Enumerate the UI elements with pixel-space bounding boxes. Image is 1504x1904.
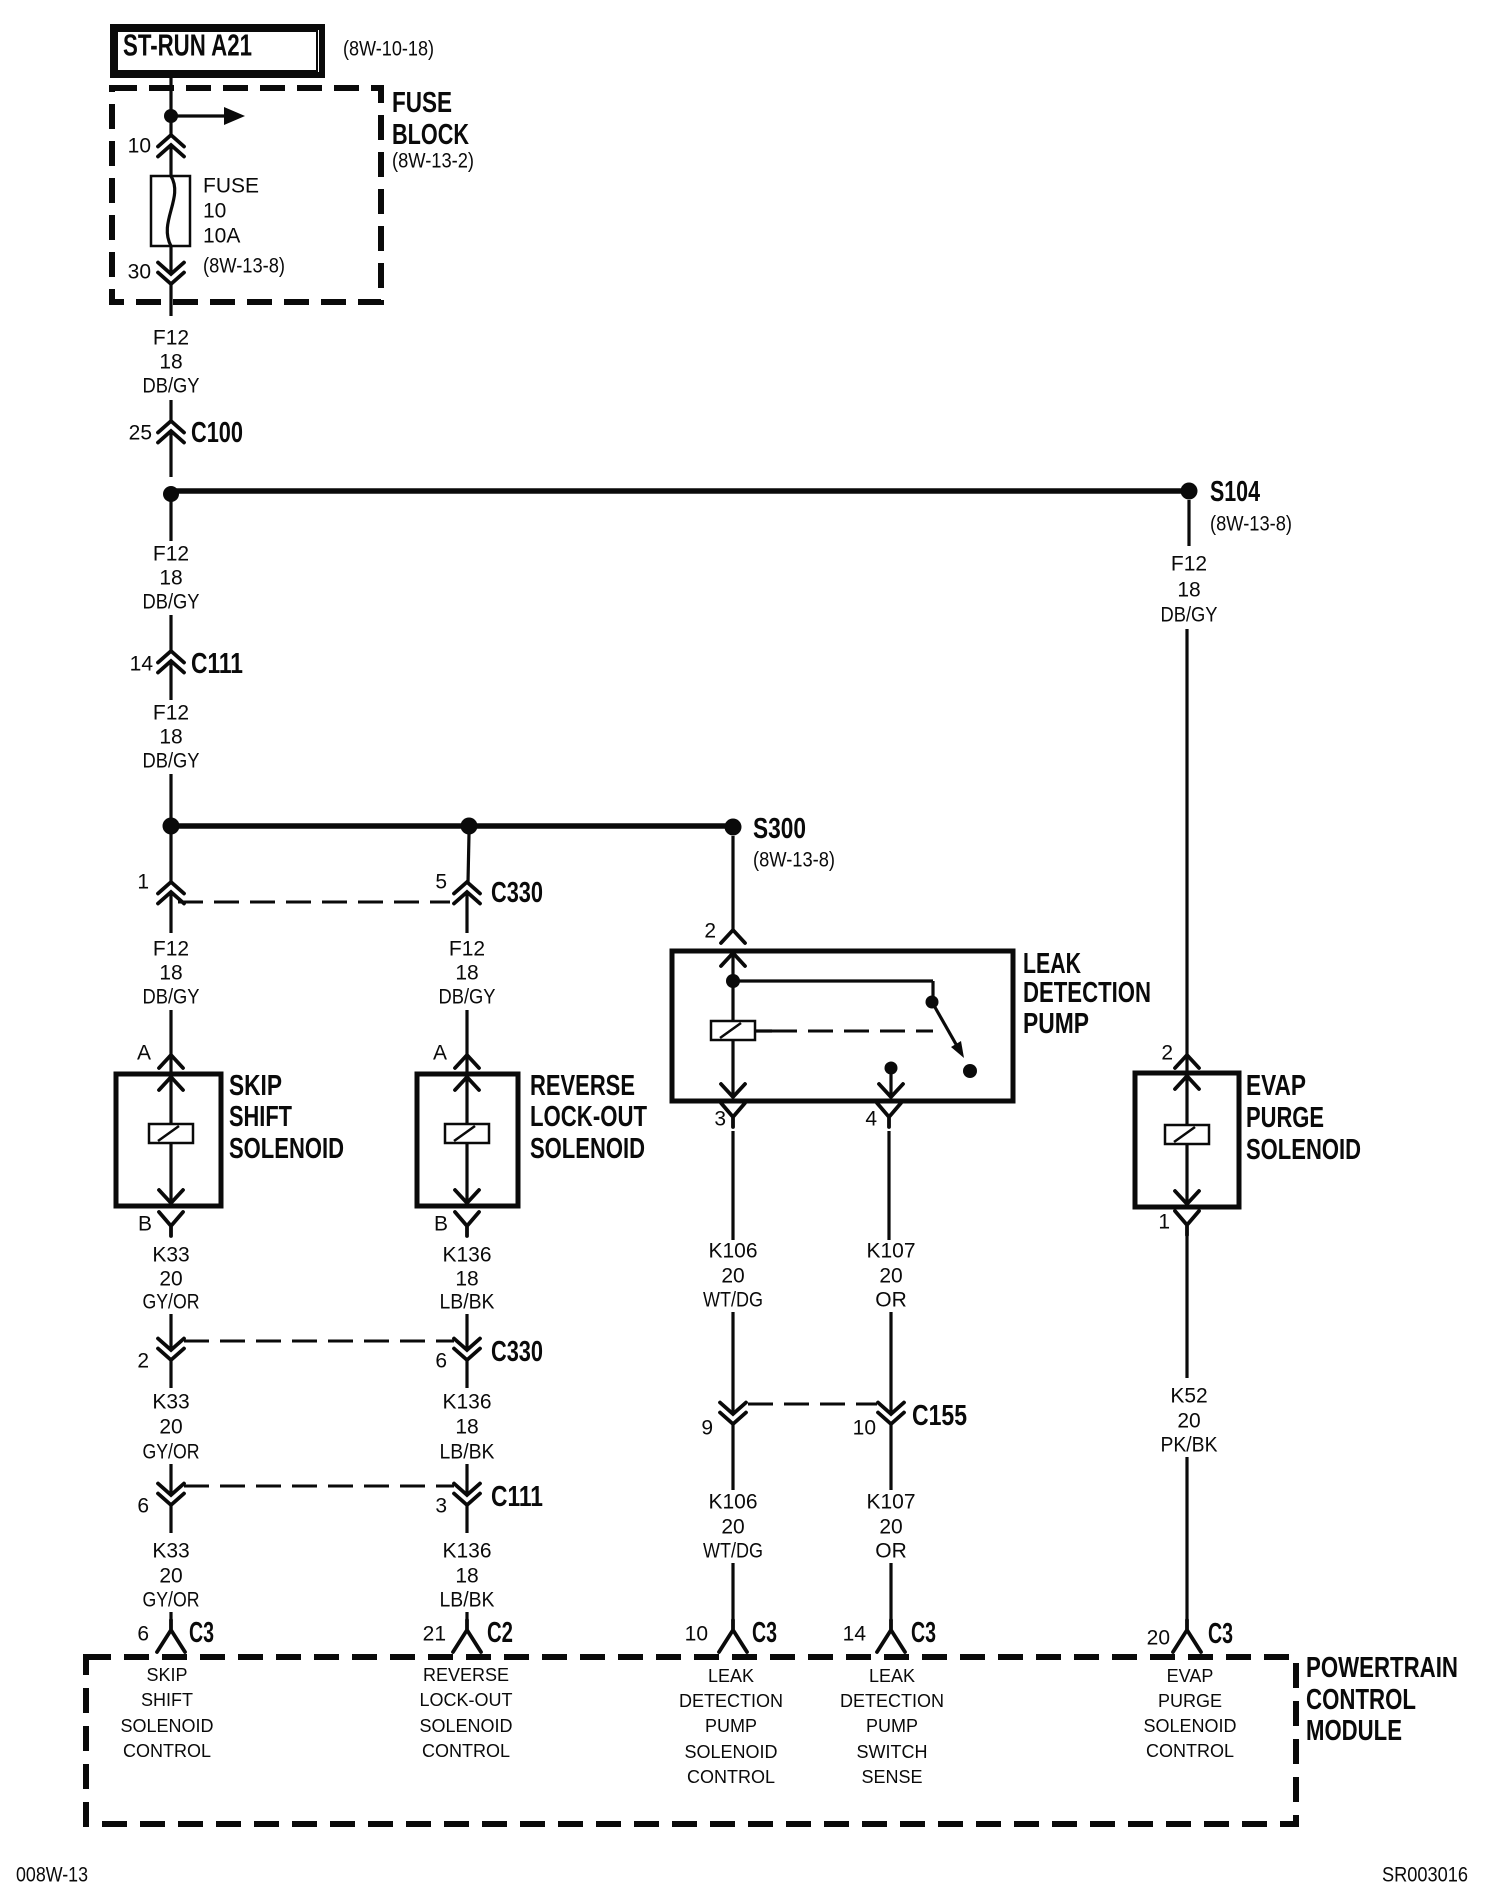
svg-text:F12: F12	[449, 938, 485, 961]
svg-text:5: 5	[435, 871, 447, 894]
svg-text:LEAK: LEAK	[869, 1666, 915, 1686]
svg-text:K107: K107	[866, 1491, 915, 1514]
svg-text:F12: F12	[153, 327, 189, 350]
LDP switch blade with arrow	[932, 1002, 964, 1058]
svg-text:PURGE: PURGE	[1158, 1691, 1222, 1711]
PCM label skip shift solenoid control	[120, 1665, 213, 1761]
LDP internal feed wire	[721, 951, 745, 1095]
svg-text:K52: K52	[1170, 1385, 1207, 1408]
wire label F12 18 DB/GY (right branch)	[439, 938, 496, 1009]
svg-text:CONTROL: CONTROL	[123, 1741, 211, 1761]
svg-text:C330: C330	[491, 877, 543, 909]
wire label F12 18 DB/GY (top)	[143, 327, 200, 398]
svg-text:C111: C111	[191, 648, 243, 680]
svg-text:20: 20	[159, 1416, 182, 1439]
svg-text:DETECTION: DETECTION	[679, 1691, 783, 1711]
wire label K106 20 WT/DG (2)	[703, 1491, 763, 1563]
svg-text:18: 18	[1177, 579, 1200, 602]
PCM label reverse lock-out solenoid control	[419, 1665, 512, 1761]
svg-text:20: 20	[159, 1268, 182, 1291]
wire label K33 20 GY/OR (2)	[143, 1391, 200, 1464]
svg-text:6: 6	[435, 1350, 447, 1373]
LDP pin 3 internal arrow	[721, 1084, 745, 1097]
svg-text:CONTROL: CONTROL	[422, 1741, 510, 1761]
svg-text:SENSE: SENSE	[861, 1767, 922, 1787]
wire label K136 18 LB/BK (1)	[440, 1244, 495, 1314]
PCM label evap purge solenoid control	[1143, 1666, 1236, 1761]
svg-text:(8W-13-8): (8W-13-8)	[1210, 513, 1292, 536]
LDP switch pivot node	[926, 996, 939, 1009]
svg-text:DB/GY: DB/GY	[1161, 604, 1218, 627]
wire to connector pin 2	[169, 1314, 172, 1350]
svg-text:LEAK: LEAK	[708, 1666, 754, 1686]
svg-text:18: 18	[159, 726, 182, 749]
pin B (skip shift solenoid)	[138, 1212, 183, 1236]
svg-text:PK/BK: PK/BK	[1161, 1434, 1218, 1457]
wire ST-RUN to junction	[169, 75, 172, 116]
reverse lock-out solenoid label	[530, 1070, 647, 1165]
svg-text:LB/BK: LB/BK	[440, 1589, 495, 1612]
fuse 10 10A symbol	[151, 176, 190, 246]
svg-text:SOLENOID: SOLENOID	[419, 1716, 512, 1736]
connector C155 pin 10	[853, 1400, 967, 1440]
svg-text:3: 3	[435, 1495, 447, 1518]
svg-text:REVERSE: REVERSE	[423, 1665, 509, 1685]
svg-text:14: 14	[130, 653, 154, 676]
LDP pin 2	[704, 920, 745, 944]
svg-text:C3: C3	[911, 1617, 936, 1649]
harness dashed tie line C155	[748, 1403, 877, 1406]
wire LDP pin4 down	[887, 1131, 890, 1240]
PCM connector pin 20 C3	[1147, 1618, 1233, 1652]
wire label K33 20 GY/OR (3)	[143, 1540, 200, 1612]
svg-text:S300: S300	[753, 813, 806, 845]
junction node at C100 bus	[163, 486, 179, 502]
svg-text:18: 18	[455, 962, 478, 985]
PCM label leak detection pump solenoid control	[679, 1666, 783, 1787]
svg-text:DB/GY: DB/GY	[143, 591, 200, 614]
wire C155 pin10 down	[889, 1424, 892, 1490]
wire to C155 pin 9	[731, 1312, 734, 1414]
svg-text:10: 10	[128, 135, 151, 158]
svg-text:SHIFT: SHIFT	[141, 1690, 193, 1710]
svg-text:PURGE: PURGE	[1246, 1102, 1324, 1134]
svg-text:10A: 10A	[203, 225, 240, 248]
wire to connector pin 6 C111	[169, 1464, 172, 1495]
svg-text:14: 14	[843, 1623, 867, 1646]
PCM connector pin 6 C3	[137, 1617, 214, 1652]
svg-text:SOLENOID: SOLENOID	[120, 1716, 213, 1736]
svg-text:K33: K33	[152, 1391, 189, 1414]
pin A (reverse lock-out solenoid)	[433, 1042, 479, 1069]
svg-text:B: B	[434, 1213, 448, 1236]
svg-text:OR: OR	[875, 1540, 907, 1563]
wire label F12 18 DB/GY (below C111)	[143, 702, 200, 773]
wire C111 down	[169, 661, 172, 700]
LDP internal junction	[726, 974, 740, 988]
LDP pin 4 internal wire arrow	[879, 1068, 903, 1097]
LDP pin 3	[714, 1103, 745, 1131]
svg-text:F12: F12	[1171, 553, 1207, 576]
bus wire to splice S300	[171, 823, 733, 829]
svg-text:MODULE: MODULE	[1306, 1715, 1402, 1747]
svg-text:LB/BK: LB/BK	[440, 1441, 495, 1464]
svg-text:30: 30	[128, 261, 151, 284]
wire below pin 1 chevron	[169, 892, 172, 933]
wire to PCM pin 10 C3	[731, 1563, 734, 1621]
skip shift solenoid label	[229, 1070, 344, 1165]
long wire to EVAP pin 2	[1185, 629, 1188, 1075]
LDP solenoid coil	[711, 1021, 755, 1040]
svg-text:SOLENOID: SOLENOID	[229, 1133, 344, 1165]
svg-text:18: 18	[159, 351, 182, 374]
wire S104 down	[1187, 500, 1190, 546]
svg-text:(8W-13-2): (8W-13-2)	[392, 150, 474, 173]
svg-text:GY/OR: GY/OR	[143, 1589, 200, 1612]
wire bus2 to connector pin 1	[169, 834, 172, 882]
footer sheet number 008W-13	[16, 1864, 88, 1887]
PCM connector pin 10 C3	[685, 1617, 777, 1652]
svg-text:EVAP: EVAP	[1246, 1070, 1306, 1102]
svg-text:C3: C3	[1208, 1618, 1233, 1650]
svg-text:9: 9	[701, 1417, 713, 1440]
bus wire to splice S104	[171, 488, 1189, 494]
LDP switch contact node	[963, 1064, 977, 1078]
svg-text:K136: K136	[442, 1244, 491, 1267]
wire label F12 18 DB/GY (below C100)	[143, 543, 200, 614]
svg-text:18: 18	[455, 1268, 478, 1291]
wire to bus 2 junction	[169, 774, 172, 818]
svg-text:PUMP: PUMP	[705, 1716, 757, 1736]
powertrain control module dashed boundary	[86, 1657, 1296, 1824]
svg-text:10: 10	[685, 1623, 708, 1646]
wire junction to connector pin 5 C330	[468, 834, 469, 882]
evap purge solenoid label	[1246, 1070, 1361, 1166]
svg-text:20: 20	[721, 1516, 744, 1539]
wire EVAP pin 1 down	[1185, 1235, 1188, 1378]
svg-text:18: 18	[159, 567, 182, 590]
reference label (8W-10-18)	[343, 38, 434, 61]
svg-text:008W-13: 008W-13	[16, 1864, 88, 1887]
wire to PCM pin 20 C3	[1185, 1457, 1188, 1621]
wire down	[465, 1505, 468, 1533]
svg-text:LOCK-OUT: LOCK-OUT	[530, 1101, 647, 1133]
wire C100 to bus junction	[169, 431, 172, 477]
svg-text:FUSE: FUSE	[203, 175, 259, 198]
wire down	[465, 1360, 468, 1388]
reference label S104 (8W-13-8)	[1210, 513, 1292, 536]
wire to PCM pin 6 C3	[169, 1612, 172, 1621]
svg-text:LEAK: LEAK	[1023, 948, 1081, 980]
svg-text:1: 1	[137, 871, 149, 894]
connector pin 6 (C111 lower left)	[137, 1484, 184, 1518]
svg-text:SOLENOID: SOLENOID	[1246, 1134, 1361, 1166]
svg-text:18: 18	[159, 962, 182, 985]
wire label K136 18 LB/BK (2)	[440, 1391, 495, 1464]
svg-text:(8W-13-8): (8W-13-8)	[203, 255, 285, 278]
svg-text:C3: C3	[189, 1617, 214, 1649]
svg-text:1: 1	[1158, 1211, 1170, 1234]
svg-text:S104: S104	[1210, 476, 1260, 508]
svg-text:OR: OR	[875, 1289, 907, 1312]
svg-text:K136: K136	[442, 1391, 491, 1414]
svg-text:LOCK-OUT: LOCK-OUT	[419, 1690, 512, 1710]
svg-text:20: 20	[879, 1265, 902, 1288]
svg-text:2: 2	[704, 920, 716, 943]
svg-text:SKIP: SKIP	[146, 1665, 187, 1685]
svg-text:SWITCH: SWITCH	[857, 1742, 928, 1762]
connector pin 5 C330	[435, 871, 543, 910]
svg-text:FUSE: FUSE	[392, 87, 452, 119]
svg-text:B: B	[138, 1213, 152, 1236]
wire label K107 20 OR (2)	[866, 1491, 915, 1563]
svg-text:K106: K106	[708, 1491, 757, 1514]
wire to connector pin 3 C111	[465, 1464, 468, 1495]
svg-text:WT/DG: WT/DG	[703, 1289, 763, 1312]
wire cavity 10 to fuse	[169, 145, 172, 176]
svg-text:3: 3	[714, 1108, 726, 1131]
svg-text:A: A	[433, 1042, 447, 1065]
skip shift solenoid internals	[149, 1074, 193, 1203]
wire below pin 5 chevron	[465, 892, 468, 933]
svg-text:POWERTRAIN: POWERTRAIN	[1306, 1652, 1458, 1684]
leak detection pump box	[672, 951, 1013, 1101]
svg-text:SKIP: SKIP	[229, 1070, 282, 1102]
connector pin 2 (C330 lower left)	[137, 1339, 184, 1373]
LDP actuation dashed link	[755, 1029, 933, 1032]
svg-text:2: 2	[1161, 1042, 1173, 1065]
svg-text:SOLENOID: SOLENOID	[684, 1742, 777, 1762]
power node ST-RUN A21 box	[113, 27, 322, 75]
svg-text:REVERSE: REVERSE	[530, 1070, 635, 1102]
svg-text:25: 25	[129, 422, 152, 445]
svg-text:C3: C3	[752, 1617, 777, 1649]
connector pin 3 C111 lower	[435, 1481, 543, 1518]
svg-text:PUMP: PUMP	[1023, 1008, 1089, 1040]
PCM connector pin 21 C2	[423, 1617, 513, 1652]
evap purge solenoid internals	[1165, 1073, 1209, 1204]
wire pin6 down	[169, 1505, 172, 1533]
wire C155 pin9 down	[731, 1424, 734, 1490]
harness dashed tie line C111 lower	[184, 1485, 454, 1488]
svg-text:SOLENOID: SOLENOID	[530, 1133, 645, 1165]
PCM connector pin 14 C3	[843, 1617, 936, 1652]
pin A (skip shift solenoid)	[137, 1042, 183, 1069]
svg-text:CONTROL: CONTROL	[1306, 1684, 1416, 1716]
svg-text:(8W-13-8): (8W-13-8)	[753, 849, 835, 872]
svg-text:C2: C2	[487, 1617, 513, 1649]
svg-text:2: 2	[137, 1350, 149, 1373]
PCM label leak detection pump switch sense	[840, 1666, 944, 1787]
powertrain control module label	[1306, 1652, 1458, 1747]
svg-text:21: 21	[423, 1623, 446, 1646]
svg-text:SR003016: SR003016	[1382, 1864, 1468, 1887]
svg-text:10: 10	[203, 200, 226, 223]
junction node with feed arrow	[164, 107, 245, 125]
connector pin 6 C330 lower	[435, 1336, 543, 1373]
svg-text:DB/GY: DB/GY	[143, 750, 200, 773]
svg-text:(8W-10-18): (8W-10-18)	[343, 38, 434, 61]
svg-text:EVAP: EVAP	[1167, 1666, 1214, 1686]
wire to pin A reverse lock-out	[465, 1010, 468, 1076]
svg-text:C111: C111	[491, 1481, 543, 1513]
wire LDP pin3 down	[731, 1131, 734, 1240]
svg-text:K33: K33	[152, 1244, 189, 1267]
svg-text:20: 20	[1147, 1627, 1170, 1650]
wire to connector pin 6 C330	[465, 1314, 468, 1350]
svg-text:DB/GY: DB/GY	[439, 986, 496, 1009]
wire label K107 20 OR (1)	[866, 1240, 915, 1312]
svg-text:GY/OR: GY/OR	[143, 1291, 200, 1314]
wire junction to fuse cavity 10	[169, 116, 172, 135]
wire to pin A skip shift	[169, 1010, 172, 1076]
wire label K33 20 GY/OR (1)	[143, 1244, 200, 1314]
svg-text:20: 20	[879, 1516, 902, 1539]
LDP switch sense node	[885, 1062, 898, 1075]
svg-text:DB/GY: DB/GY	[143, 375, 200, 398]
svg-text:C330: C330	[491, 1336, 543, 1368]
svg-text:DETECTION: DETECTION	[1023, 977, 1151, 1009]
reverse lock-out solenoid internals	[445, 1074, 489, 1203]
svg-text:K107: K107	[866, 1240, 915, 1263]
svg-text:6: 6	[137, 1495, 149, 1518]
svg-text:C155: C155	[912, 1400, 967, 1432]
leak detection pump label	[1023, 948, 1151, 1040]
wire to PCM pin 14 C3	[889, 1563, 892, 1621]
svg-text:GY/OR: GY/OR	[143, 1441, 200, 1464]
wire to C155 pin 10	[889, 1312, 892, 1414]
svg-text:PUMP: PUMP	[866, 1716, 918, 1736]
svg-text:K33: K33	[152, 1540, 189, 1563]
skip shift solenoid box	[116, 1074, 221, 1206]
splice S300	[725, 813, 807, 845]
connector C155 pin 9	[701, 1403, 746, 1440]
svg-text:CONTROL: CONTROL	[687, 1767, 775, 1787]
wire label K52 20 PK/BK	[1161, 1385, 1218, 1457]
svg-text:20: 20	[159, 1565, 182, 1588]
junction node left at bus 2	[163, 818, 180, 835]
svg-text:20: 20	[1177, 1410, 1200, 1433]
wire cavity 30 out of fuse block	[169, 284, 172, 316]
connector C111 pin 14	[130, 648, 243, 680]
svg-text:DETECTION: DETECTION	[840, 1691, 944, 1711]
wire below junction	[169, 500, 172, 541]
fuse block dashed boundary	[112, 88, 381, 302]
svg-text:ST-RUN A21: ST-RUN A21	[123, 28, 252, 63]
svg-text:F12: F12	[153, 702, 189, 725]
svg-text:F12: F12	[153, 543, 189, 566]
EVAP pin 2	[1161, 1042, 1199, 1069]
wire to connector C100	[169, 400, 172, 421]
wire S300 to LDP pin 2	[731, 836, 734, 931]
svg-text:C100: C100	[191, 417, 243, 449]
svg-text:SOLENOID: SOLENOID	[1143, 1716, 1236, 1736]
splice S104	[1181, 476, 1261, 508]
wire to PCM pin 21 C2	[465, 1612, 468, 1621]
svg-text:18: 18	[455, 1416, 478, 1439]
svg-text:10: 10	[853, 1417, 876, 1440]
svg-text:LB/BK: LB/BK	[440, 1291, 495, 1314]
wire pin2 down	[169, 1360, 172, 1388]
evap purge solenoid box	[1135, 1073, 1239, 1207]
fuse value label	[203, 175, 285, 278]
reference label S300 (8W-13-8)	[753, 849, 835, 872]
fuse block label	[392, 87, 474, 173]
svg-text:A: A	[137, 1042, 151, 1065]
svg-text:K136: K136	[442, 1540, 491, 1563]
connector cavity 30 (fuse block)	[128, 261, 184, 285]
wire label F12 18 DB/GY (left, above solenoid)	[143, 938, 200, 1009]
wire to connector C111	[169, 615, 172, 652]
svg-text:F12: F12	[153, 938, 189, 961]
wire label K136 18 LB/BK (3)	[440, 1540, 495, 1612]
wire label K106 20 WT/DG (1)	[703, 1240, 763, 1312]
LDP internal wire to switch pivot	[733, 981, 933, 1003]
harness dashed tie line C330 lower	[184, 1340, 454, 1343]
connector cavity 10 (fuse block)	[128, 135, 184, 158]
harness dashed tie line C330 upper	[178, 901, 450, 904]
svg-text:6: 6	[137, 1623, 149, 1646]
svg-text:K106: K106	[708, 1240, 757, 1263]
svg-text:DB/GY: DB/GY	[143, 986, 200, 1009]
svg-text:BLOCK: BLOCK	[392, 119, 469, 151]
svg-text:SHIFT: SHIFT	[229, 1101, 292, 1133]
svg-text:18: 18	[455, 1565, 478, 1588]
svg-text:4: 4	[865, 1108, 877, 1131]
connector C100 pin 25	[129, 417, 243, 449]
LDP pin 4	[865, 1103, 901, 1131]
svg-text:WT/DG: WT/DG	[703, 1540, 763, 1563]
wire fuse to cavity 30	[169, 246, 172, 274]
svg-text:CONTROL: CONTROL	[1146, 1741, 1234, 1761]
wire label F12 18 DB/GY (right)	[1161, 553, 1218, 627]
pin B (reverse lock-out solenoid)	[434, 1212, 479, 1236]
svg-text:20: 20	[721, 1265, 744, 1288]
junction node above C330 branch	[461, 818, 478, 835]
connector pin 1 (C330 left half)	[137, 871, 184, 904]
footer drawing number SR003016	[1382, 1864, 1468, 1887]
EVAP pin 1	[1158, 1211, 1199, 1236]
reverse lock-out solenoid box	[417, 1074, 518, 1206]
